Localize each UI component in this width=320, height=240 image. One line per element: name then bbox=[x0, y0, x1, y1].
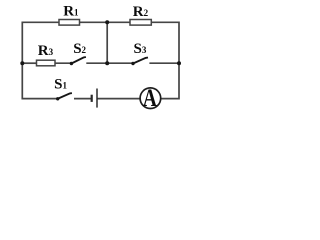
wire: junction to S3 pivot bbox=[107, 62, 133, 64]
wire: top between R1 and R2 bbox=[80, 21, 131, 23]
wire: R3 to S2 pivot bbox=[55, 62, 71, 64]
switch S1 bbox=[56, 93, 72, 100]
wire: middle row left to R3 bbox=[22, 62, 36, 64]
node: junction right edge / middle wire bbox=[177, 61, 181, 65]
svg-text:R2: R2 bbox=[133, 4, 149, 20]
node: junction middle wire / connector bbox=[105, 61, 109, 65]
wire: S1 terminal to battery bbox=[74, 98, 92, 100]
wire: battery to ammeter bbox=[97, 98, 140, 100]
ammeter A bbox=[140, 83, 161, 112]
svg-text:A: A bbox=[143, 83, 157, 112]
resistor R3 bbox=[37, 60, 56, 66]
switch S3 bbox=[131, 58, 148, 66]
resistor R2 bbox=[130, 20, 151, 26]
wire: S2 terminal to junction bbox=[86, 62, 107, 64]
switch S2 bbox=[70, 57, 86, 65]
node: junction top wire / connector bbox=[105, 20, 109, 24]
resistor R1 bbox=[59, 20, 80, 26]
battery cell bbox=[92, 89, 97, 108]
wire: S3 terminal to right edge bbox=[149, 62, 179, 64]
svg-text:S1: S1 bbox=[54, 77, 67, 93]
svg-text:S3: S3 bbox=[134, 41, 147, 57]
svg-text:S2: S2 bbox=[73, 41, 86, 57]
node: junction left edge / middle wire bbox=[20, 61, 24, 65]
svg-text:R3: R3 bbox=[38, 43, 54, 59]
wire: middle connector vertical bbox=[106, 22, 108, 63]
wire: top-left segment to R1 bbox=[22, 22, 59, 98]
svg-text:R1: R1 bbox=[63, 4, 79, 20]
wire: top-right from R2 down right edge bbox=[151, 22, 179, 98]
